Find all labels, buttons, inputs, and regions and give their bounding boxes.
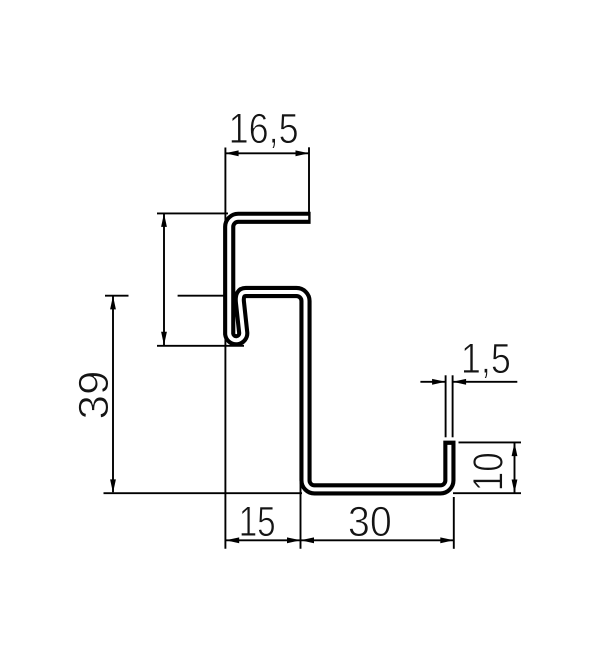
svg-text:39: 39 [70,371,118,420]
svg-text:15: 15 [239,498,276,546]
svg-text:10: 10 [465,452,513,491]
svg-text:1,5: 1,5 [461,335,511,383]
svg-text:16,5: 16,5 [229,105,299,153]
svg-text:30: 30 [348,498,392,546]
